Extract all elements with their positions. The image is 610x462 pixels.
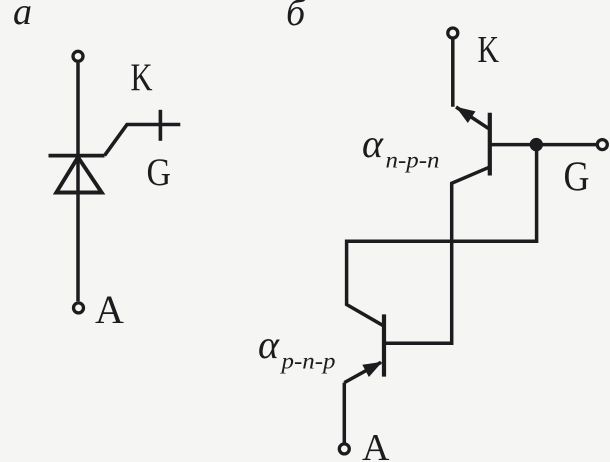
wire: K lead <box>451 40 455 107</box>
thyristor VS: cathode terminal circle K <box>73 51 83 61</box>
svg-text:A: A <box>362 427 390 462</box>
thyristor anode terminal circle A <box>74 303 84 313</box>
svg-text:p-n-p: p-n-p <box>279 349 335 374</box>
wire: A lead <box>343 383 347 443</box>
wire: Q1 base to gate node <box>489 143 536 147</box>
svg-text:G: G <box>564 155 590 201</box>
wire: gate node to terminal G <box>536 143 598 147</box>
thyristor triangle (anode->cathode) <box>56 157 101 192</box>
anode terminal circle A <box>339 444 349 454</box>
transistor Q1 (n-p-n) base bar <box>488 113 492 176</box>
svg-text:а: а <box>13 0 32 33</box>
transistor Q1 emitter arrowhead <box>456 107 476 123</box>
svg-text:n-p-n: n-p-n <box>386 148 440 173</box>
svg-text:K: K <box>131 56 153 99</box>
gate terminal cross <box>159 110 163 141</box>
svg-text:α: α <box>258 322 280 367</box>
transistor Q2 (p-n-p) base bar <box>382 314 386 376</box>
transistor Q2 emitter arrowhead <box>362 362 382 377</box>
wire: Q2 collector up to gate node <box>347 151 537 326</box>
transistor Q1 emitter line <box>456 107 489 129</box>
wire: thyristor vertical lead K to A <box>76 63 80 301</box>
node: gate junction dot <box>530 138 543 151</box>
wire: Q1 collector down to Q2 base <box>386 167 489 343</box>
svg-text:α: α <box>362 121 384 166</box>
two-transistor model: cathode terminal circle K <box>448 28 458 38</box>
thyristor cathode bar <box>49 154 105 158</box>
svg-text:б: б <box>286 0 307 34</box>
gate terminal circle G <box>597 140 607 150</box>
svg-text:G: G <box>147 151 172 194</box>
svg-text:K: K <box>478 29 500 71</box>
wire: gate lead G <box>105 125 181 156</box>
transistor Q2 emitter line <box>344 362 381 382</box>
svg-text:A: A <box>95 287 124 332</box>
